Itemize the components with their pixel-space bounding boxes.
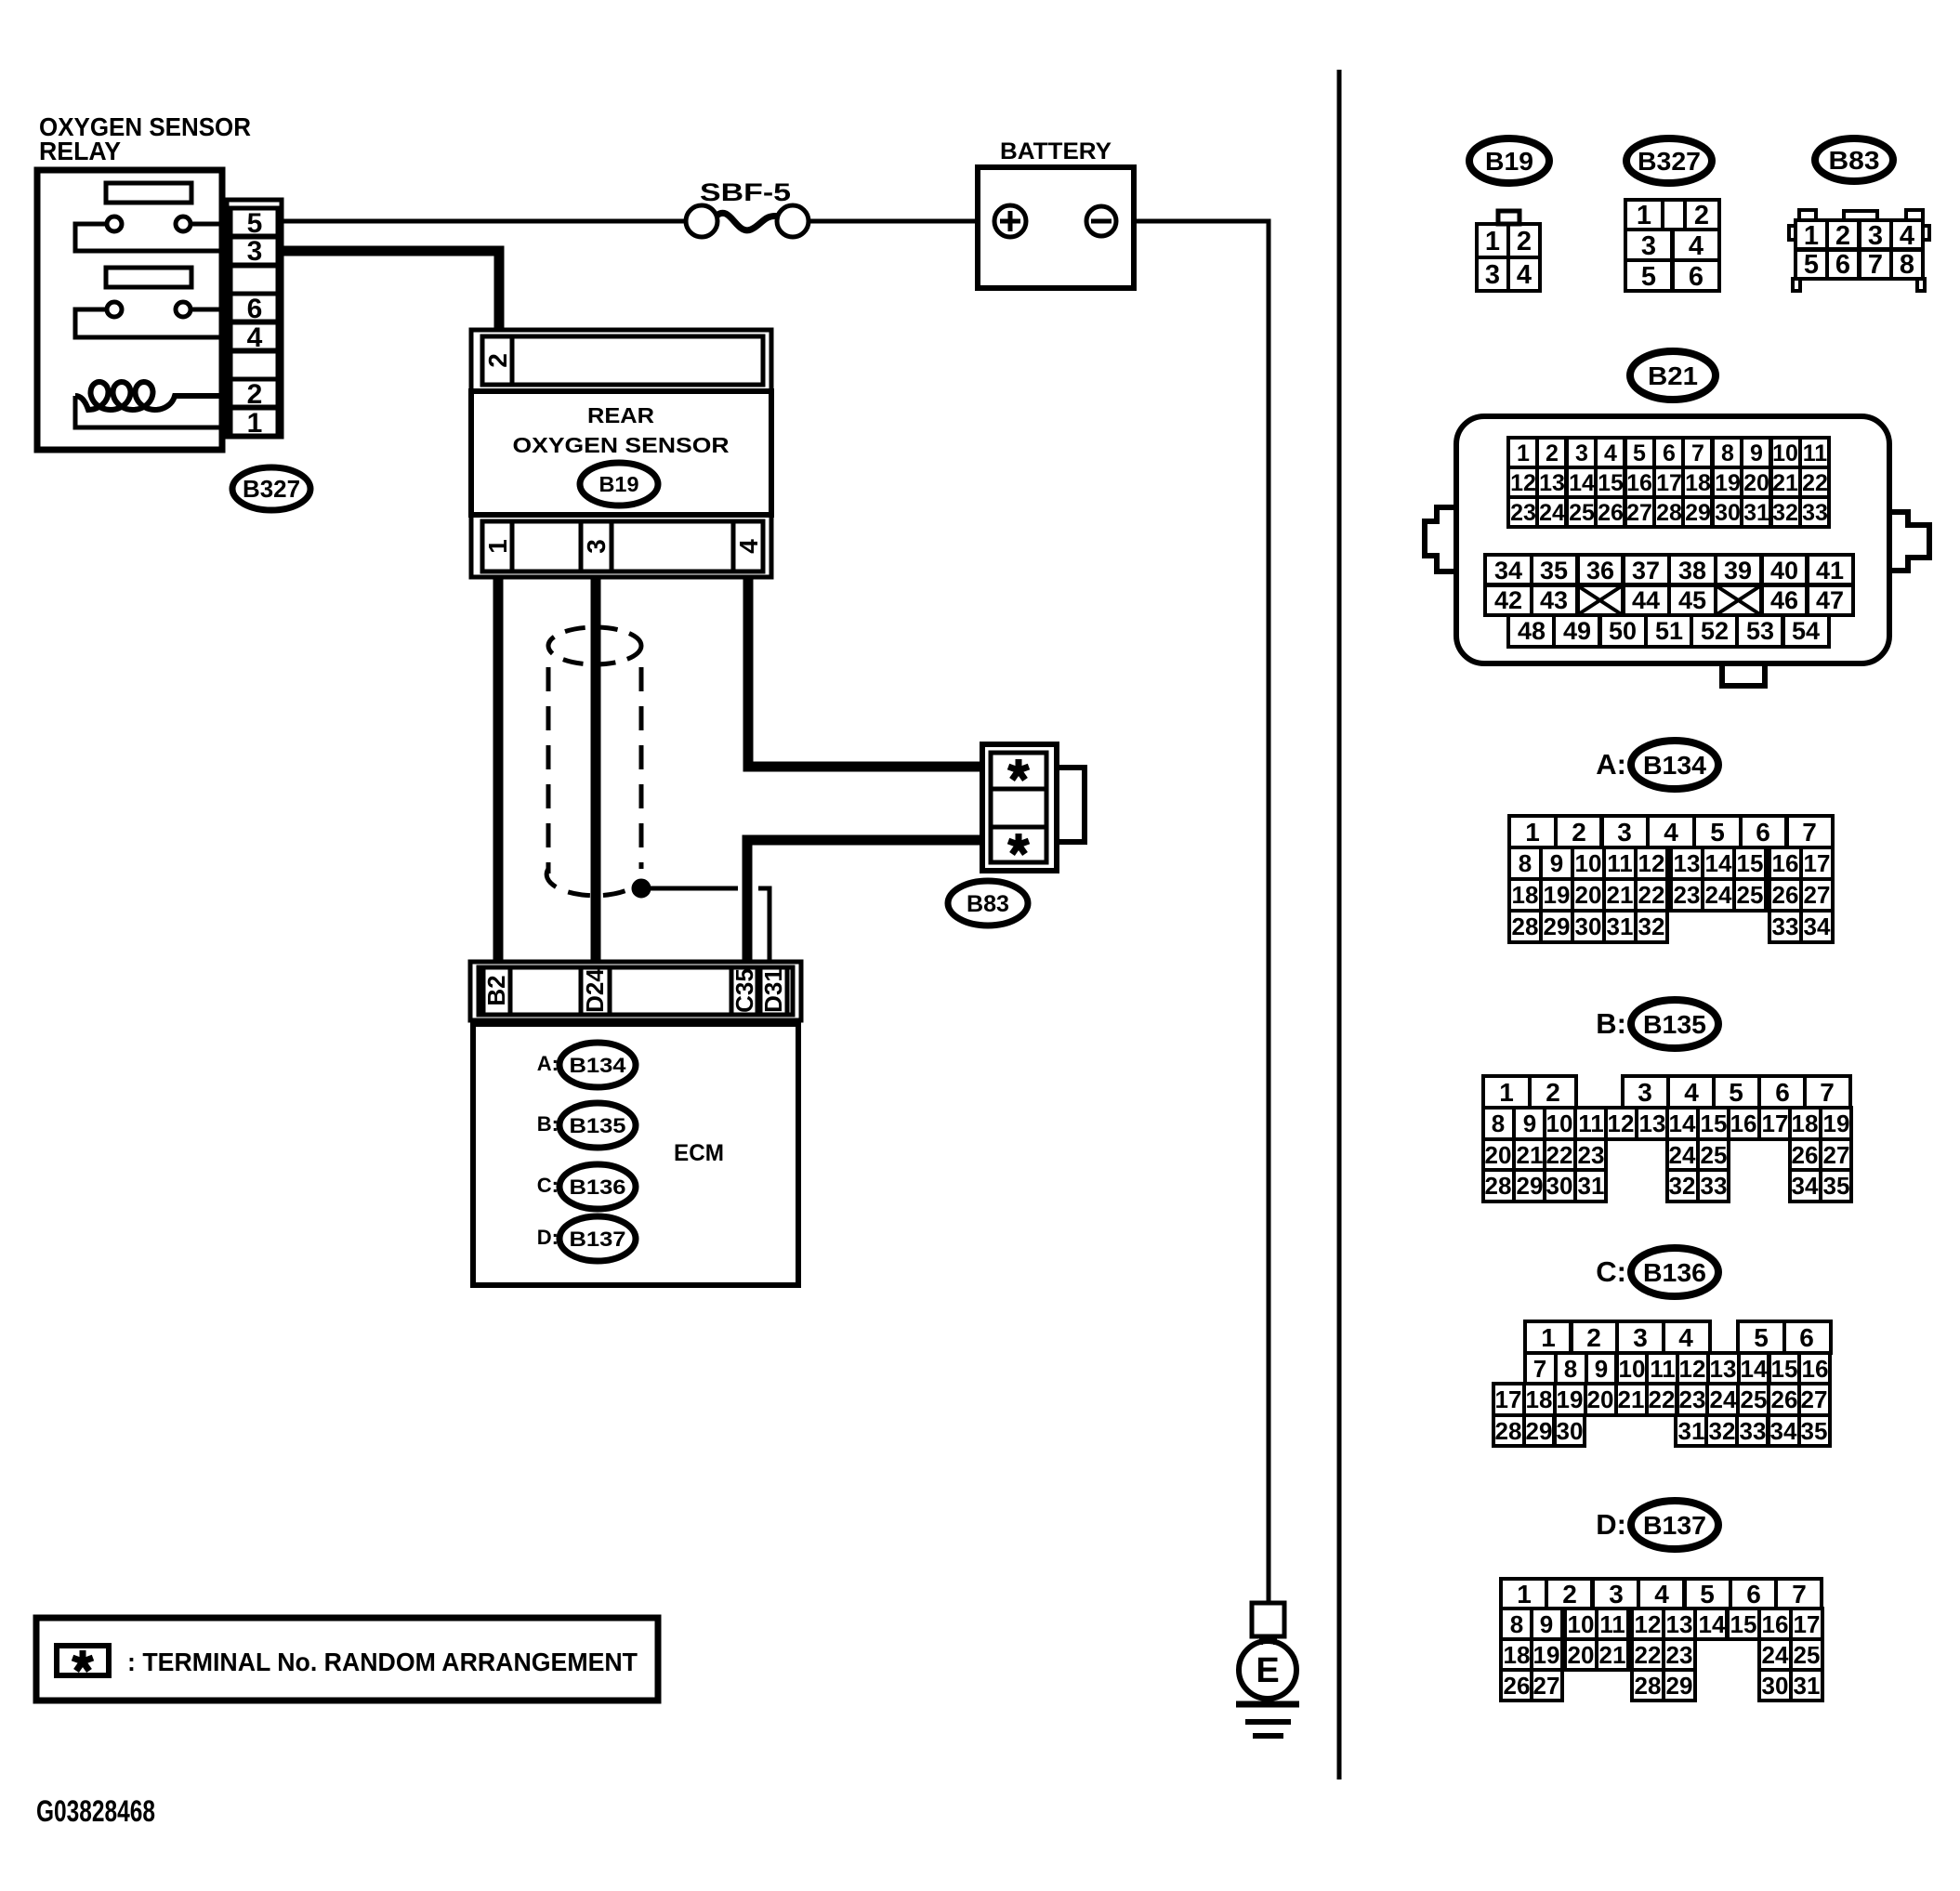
B137 view pin 6 — [1730, 1579, 1776, 1609]
svg-text:54: 54 — [1792, 617, 1820, 645]
B327 view blank key cell — [1663, 200, 1685, 230]
svg-text:36: 36 — [1586, 557, 1614, 584]
relay contact 2 right terminal — [176, 302, 191, 317]
svg-text:47: 47 — [1816, 586, 1844, 614]
B137 view pin 3 — [1593, 1579, 1638, 1609]
B135 view pin 29 — [1514, 1170, 1545, 1202]
B137 view pin 5 — [1685, 1579, 1730, 1609]
svg-text:32: 32 — [1669, 1172, 1696, 1200]
B21 view pin 11 — [1800, 438, 1829, 467]
B137 view pin 11 — [1597, 1609, 1628, 1639]
svg-text:13: 13 — [1539, 470, 1565, 496]
svg-text:16: 16 — [1730, 1110, 1757, 1137]
B135 view pin 33 — [1698, 1170, 1729, 1202]
relay contact 1 right terminal — [176, 217, 191, 231]
B21 view pin 47 — [1807, 585, 1853, 615]
connector view B19 grid — [1477, 224, 1540, 291]
svg-text:28: 28 — [1512, 913, 1539, 940]
B137 view pin 18 — [1501, 1639, 1532, 1670]
svg-text:7: 7 — [1792, 1580, 1807, 1609]
svg-text:B83: B83 — [967, 891, 1009, 917]
B21 view pin 30 — [1713, 497, 1742, 527]
svg-text:9: 9 — [1523, 1110, 1536, 1137]
B135 view pin 32 — [1667, 1170, 1698, 1202]
B21 view pin 36 — [1577, 555, 1624, 584]
B136 view pin 32 — [1706, 1415, 1737, 1446]
B136 view pin 14 — [1739, 1353, 1769, 1384]
svg-text:21: 21 — [1607, 881, 1634, 909]
B134 view pin 32 — [1636, 911, 1667, 942]
B134 view pin 13 — [1671, 847, 1703, 879]
wire sensor pin4 to connector B83 — [748, 577, 985, 767]
B21 view pin 14 — [1567, 467, 1596, 497]
svg-text:19: 19 — [1533, 1641, 1560, 1669]
svg-text:4: 4 — [1684, 1078, 1699, 1107]
B134 view pin 31 — [1604, 911, 1636, 942]
B134 view pin 14 — [1703, 847, 1734, 879]
B135 view pin 1 — [1483, 1076, 1530, 1108]
svg-text:15: 15 — [1737, 849, 1764, 877]
B135 view pin 24 — [1667, 1139, 1698, 1170]
B137 view pin 13 — [1664, 1609, 1695, 1639]
B137 view pin 1 — [1501, 1579, 1546, 1609]
connector B327 pin 3 cell — [230, 237, 278, 265]
B134 view pin 16 — [1769, 847, 1801, 879]
B137 view pin 25 — [1791, 1639, 1822, 1670]
svg-text:52: 52 — [1701, 617, 1729, 645]
svg-text:8: 8 — [1900, 250, 1914, 280]
B135 view pin 30 — [1545, 1170, 1575, 1202]
connector B327 blank cell — [230, 266, 278, 294]
B137 view pin 2 — [1546, 1579, 1592, 1609]
svg-text:39: 39 — [1724, 557, 1752, 584]
wire fuse to battery positive — [809, 219, 978, 224]
rear oxygen sensor pin 3 cell — [581, 521, 612, 571]
svg-text:B137: B137 — [1643, 1511, 1706, 1540]
svg-text:SBF-5: SBF-5 — [700, 178, 791, 206]
svg-text:4: 4 — [247, 322, 263, 353]
svg-text:38: 38 — [1678, 557, 1706, 584]
B327 view pin 2 — [1685, 200, 1719, 230]
svg-text:14: 14 — [1669, 1110, 1696, 1137]
svg-text:2: 2 — [247, 379, 263, 410]
B136 view pin 25 — [1738, 1384, 1769, 1415]
B135 view pin 19 — [1821, 1108, 1851, 1139]
svg-text:11: 11 — [1607, 849, 1633, 877]
svg-text:22: 22 — [1802, 470, 1828, 496]
B134 view pin 18 — [1509, 879, 1541, 911]
B83 view top-right tab — [1906, 210, 1923, 220]
B136 view pin 31 — [1676, 1415, 1706, 1446]
svg-text:24: 24 — [1762, 1641, 1789, 1669]
B136 view pin 27 — [1799, 1384, 1830, 1415]
svg-text:34: 34 — [1494, 557, 1522, 584]
B137 view pin 9 — [1532, 1609, 1562, 1639]
svg-text:B134: B134 — [570, 1054, 627, 1077]
svg-text:B2: B2 — [482, 975, 510, 1005]
svg-text:26: 26 — [1792, 1141, 1819, 1169]
B136 view pin 16 — [1799, 1353, 1830, 1384]
svg-text:1: 1 — [1525, 818, 1540, 847]
B134 view pin 5 — [1694, 816, 1741, 847]
B21 view pin 53 — [1737, 615, 1782, 647]
svg-text:16: 16 — [1762, 1610, 1789, 1638]
svg-text:9: 9 — [1550, 849, 1563, 877]
B21 view pin 37 — [1623, 555, 1669, 584]
B21 view pin 33 — [1800, 497, 1829, 527]
B136 view pin 5 — [1738, 1321, 1784, 1353]
B21 view pin 9 — [1742, 438, 1770, 467]
svg-text:53: 53 — [1746, 617, 1774, 645]
svg-text:1: 1 — [1517, 1580, 1532, 1609]
B137 view pin 26 — [1501, 1670, 1532, 1701]
svg-text:15: 15 — [1771, 1355, 1798, 1383]
svg-text:18: 18 — [1792, 1110, 1819, 1137]
connector view B21 oval — [1630, 351, 1716, 400]
svg-text:3: 3 — [247, 236, 263, 267]
svg-text:10: 10 — [1619, 1355, 1646, 1383]
svg-text:29: 29 — [1517, 1172, 1544, 1200]
B21 view pin 28 — [1654, 497, 1683, 527]
svg-text:32: 32 — [1709, 1417, 1736, 1445]
B136 view pin 3 — [1617, 1321, 1664, 1353]
connector B327 pin 4 cell — [230, 322, 278, 350]
svg-text:26: 26 — [1771, 1385, 1798, 1413]
svg-text:20: 20 — [1587, 1385, 1614, 1413]
svg-text:3: 3 — [1575, 440, 1588, 466]
svg-text:28: 28 — [1495, 1417, 1522, 1445]
B21 view pin 32 — [1771, 497, 1800, 527]
svg-text:B19: B19 — [1485, 147, 1533, 176]
svg-text:5: 5 — [1754, 1323, 1769, 1352]
svg-text:25: 25 — [1794, 1641, 1821, 1669]
svg-text:28: 28 — [1656, 500, 1682, 526]
B137 view pin 23 — [1664, 1639, 1695, 1670]
svg-text:20: 20 — [1568, 1641, 1595, 1669]
B83 view bottom-left tab — [1793, 279, 1800, 291]
svg-text:30: 30 — [1575, 913, 1602, 940]
svg-text:30: 30 — [1546, 1172, 1573, 1200]
ECM body — [473, 1024, 798, 1285]
B135 view pin 23 — [1575, 1139, 1606, 1170]
B134 view pin 19 — [1541, 879, 1572, 911]
svg-text:14: 14 — [1699, 1610, 1726, 1638]
connector B83 terminal * upper — [991, 753, 1046, 789]
svg-text:11: 11 — [1650, 1355, 1676, 1383]
ECM pin D24 cell — [581, 967, 610, 1015]
B135 view pin 15 — [1698, 1108, 1729, 1139]
connector B327 pin 5 cell — [230, 208, 278, 236]
B136 view pin 20 — [1585, 1384, 1616, 1415]
B136 view pin 35 — [1799, 1415, 1830, 1446]
B134 view pin 15 — [1734, 847, 1766, 879]
B134 view pin 8 — [1509, 847, 1541, 879]
connector view B136 grid — [1493, 1321, 1831, 1446]
svg-text:8: 8 — [1510, 1610, 1523, 1638]
svg-text:19: 19 — [1823, 1110, 1850, 1137]
svg-text:16: 16 — [1626, 470, 1652, 496]
svg-text:30: 30 — [1715, 500, 1741, 526]
connector B327 oval label — [232, 467, 310, 510]
B135 view pin 2 — [1530, 1076, 1576, 1108]
B137 view pin 14 — [1695, 1609, 1727, 1639]
B83 view bottom-right tab — [1917, 279, 1925, 291]
svg-text:18: 18 — [1504, 1641, 1531, 1669]
B136 view pin 13 — [1708, 1353, 1739, 1384]
B136 view pin 11 — [1647, 1353, 1677, 1384]
svg-text:B:: B: — [1596, 1007, 1626, 1040]
svg-text:4: 4 — [734, 539, 763, 554]
svg-text:34: 34 — [1770, 1417, 1797, 1445]
B21 view pin 15 — [1596, 467, 1625, 497]
B21 view pin 4 — [1596, 438, 1625, 467]
ECM pin D31 cell — [760, 967, 787, 1015]
svg-text:2: 2 — [1586, 1323, 1601, 1352]
B83 view pin 7 — [1860, 249, 1891, 279]
svg-text:7: 7 — [1533, 1355, 1546, 1383]
battery negative terminal — [1086, 206, 1116, 236]
svg-text:8: 8 — [1564, 1355, 1577, 1383]
svg-text:22: 22 — [1638, 881, 1665, 909]
B135 view pin 11 — [1575, 1108, 1606, 1139]
B21 view pin 40 — [1761, 555, 1808, 584]
svg-text:8: 8 — [1519, 849, 1532, 877]
svg-text:1: 1 — [1517, 440, 1530, 466]
svg-text:30: 30 — [1762, 1672, 1789, 1700]
svg-text:31: 31 — [1578, 1172, 1605, 1200]
wire sensor pin3 to ECM D24 shielded — [591, 577, 601, 963]
B135 view pin 4 — [1668, 1076, 1714, 1108]
svg-text:3: 3 — [1641, 231, 1656, 261]
wire relay pin5 to fuse SBF-5 — [282, 219, 686, 224]
B137 view pin 10 — [1565, 1609, 1597, 1639]
svg-text:28: 28 — [1635, 1672, 1662, 1700]
svg-text:G03828468: G03828468 — [36, 1794, 155, 1828]
svg-text:4: 4 — [1604, 440, 1617, 466]
B135 view pin 12 — [1606, 1108, 1637, 1139]
B21 view pin 49 — [1554, 615, 1599, 647]
connector view B135 grid — [1483, 1076, 1851, 1202]
svg-text:3: 3 — [1485, 260, 1500, 290]
svg-text:OXYGEN SENSOR: OXYGEN SENSOR — [513, 433, 730, 457]
B21 view pin 45 — [1669, 585, 1716, 615]
svg-text:22: 22 — [1649, 1385, 1676, 1413]
B136 view pin 10 — [1616, 1353, 1647, 1384]
B21 view pin 10 — [1771, 438, 1800, 467]
B134 view pin 22 — [1636, 879, 1667, 911]
svg-text:12: 12 — [1608, 1110, 1635, 1137]
B21 view pin 13 — [1537, 467, 1566, 497]
svg-text:B134: B134 — [1643, 751, 1706, 780]
svg-text:16: 16 — [1802, 1355, 1829, 1383]
B83 view top-left tab — [1799, 210, 1816, 220]
B135 view pin 7 — [1805, 1076, 1850, 1108]
svg-text:23: 23 — [1666, 1641, 1693, 1669]
svg-text:25: 25 — [1701, 1141, 1728, 1169]
connector B83 terminal * lower — [991, 827, 1046, 862]
shield junction node — [632, 879, 651, 898]
B21 view pin 54 — [1783, 615, 1829, 647]
svg-text:26: 26 — [1772, 881, 1799, 909]
battery positive terminal — [994, 205, 1026, 237]
svg-text:B83: B83 — [1829, 146, 1880, 175]
svg-text:13: 13 — [1666, 1610, 1693, 1638]
B21 view pin 6 — [1654, 438, 1683, 467]
B135 view pin 17 — [1759, 1108, 1790, 1139]
wire relay pin3 to rear oxygen sensor pin 2 — [282, 251, 499, 331]
svg-text:RELAY: RELAY — [39, 137, 121, 165]
B19 view pin 3 — [1477, 257, 1508, 291]
svg-text:6: 6 — [1746, 1580, 1761, 1609]
B21 view pin 35 — [1532, 555, 1578, 584]
B136 view pin 19 — [1555, 1384, 1585, 1415]
rear oxygen sensor oval label B19 — [580, 463, 658, 506]
svg-text:29: 29 — [1666, 1672, 1693, 1700]
svg-text:31: 31 — [1743, 500, 1769, 526]
B21 view pin 51 — [1646, 615, 1691, 647]
svg-text:34: 34 — [1804, 913, 1831, 940]
B135 view pin 14 — [1667, 1108, 1698, 1139]
svg-text:40: 40 — [1770, 557, 1798, 584]
svg-text:6: 6 — [1689, 262, 1703, 292]
svg-text:33: 33 — [1802, 500, 1828, 526]
B21 view pin 48 — [1508, 615, 1554, 647]
connector B327 pin 1 cell — [230, 408, 278, 436]
B21 view pin 18 — [1683, 467, 1712, 497]
svg-text:26: 26 — [1598, 500, 1624, 526]
fuse SBF-5 right terminal — [777, 205, 809, 237]
B19 view pin 4 — [1508, 257, 1540, 291]
B134 view pin 25 — [1734, 879, 1766, 911]
svg-text:B137: B137 — [570, 1228, 626, 1251]
svg-text:23: 23 — [1679, 1385, 1706, 1413]
svg-text:21: 21 — [1517, 1141, 1544, 1169]
svg-text:17: 17 — [1495, 1385, 1522, 1413]
relay contact 1 fixed bar — [106, 183, 191, 203]
shield around D24 wire — [548, 627, 641, 664]
relay contact 2 fixed bar — [106, 268, 191, 287]
B137 view pin 31 — [1791, 1670, 1822, 1701]
svg-text:18: 18 — [1512, 881, 1539, 909]
B134 view pin 30 — [1572, 911, 1604, 942]
B21 view pin 50 — [1600, 615, 1646, 647]
B134 view pin 10 — [1572, 847, 1604, 879]
svg-text:10: 10 — [1575, 849, 1602, 877]
svg-text:3: 3 — [1609, 1580, 1624, 1609]
svg-text:13: 13 — [1639, 1110, 1666, 1137]
B135 view pin 3 — [1623, 1076, 1668, 1108]
B136 view pin 4 — [1664, 1321, 1710, 1353]
B134 view pin 28 — [1509, 911, 1541, 942]
svg-text:17: 17 — [1762, 1110, 1789, 1137]
B136 view pin 12 — [1677, 1353, 1708, 1384]
relay coil L1 — [75, 382, 219, 410]
svg-text:2: 2 — [1562, 1580, 1577, 1609]
svg-text:4: 4 — [1517, 260, 1532, 290]
fuse SBF-5 element — [716, 213, 780, 230]
svg-text:41: 41 — [1816, 557, 1844, 584]
B21 view pin 2 — [1537, 438, 1566, 467]
svg-text:50: 50 — [1609, 617, 1637, 645]
rear oxygen sensor pin 4 cell — [733, 521, 763, 571]
B21 view pin 1 — [1508, 438, 1537, 467]
wire relay coil to pin 1 — [75, 396, 219, 427]
svg-text:5: 5 — [1710, 818, 1725, 847]
svg-text:B19: B19 — [599, 472, 639, 496]
fuse SBF-5 left terminal — [686, 205, 717, 237]
svg-text:33: 33 — [1740, 1417, 1767, 1445]
wire relay contact2 to pin 4 — [75, 309, 219, 337]
B327 view pin 1 — [1625, 200, 1663, 230]
svg-text:19: 19 — [1715, 470, 1741, 496]
B135 view pin 9 — [1514, 1108, 1545, 1139]
battery G1 — [978, 167, 1134, 288]
connector view B83 oval — [1815, 138, 1893, 181]
rear oxygen sensor top connector strip — [471, 330, 771, 391]
svg-text:4: 4 — [1654, 1580, 1669, 1609]
svg-text:6: 6 — [1756, 818, 1770, 847]
svg-text:1: 1 — [247, 408, 263, 439]
svg-text:1: 1 — [1804, 221, 1819, 251]
svg-text:27: 27 — [1626, 500, 1652, 526]
B134 view pin 24 — [1703, 879, 1734, 911]
svg-text:B136: B136 — [1643, 1258, 1706, 1287]
B134 view pin 3 — [1601, 816, 1648, 847]
B136 view pin 15 — [1769, 1353, 1799, 1384]
connector B327 pin 6 cell — [230, 294, 278, 322]
svg-text:4: 4 — [1678, 1323, 1693, 1352]
ground E body circle — [1239, 1641, 1296, 1699]
svg-text:46: 46 — [1770, 586, 1798, 614]
B21 view pin 27 — [1625, 497, 1654, 527]
ground symbol bars — [1236, 1701, 1299, 1708]
B134 view pin 26 — [1769, 879, 1801, 911]
svg-text:B136: B136 — [570, 1175, 626, 1199]
B135 view pin 31 — [1575, 1170, 1606, 1202]
svg-text:9: 9 — [1540, 1610, 1553, 1638]
svg-text:49: 49 — [1563, 617, 1591, 645]
B134 view pin 1 — [1509, 816, 1556, 847]
svg-text:B21: B21 — [1648, 361, 1698, 390]
connector view B19 oval — [1469, 138, 1549, 183]
svg-text:19: 19 — [1557, 1385, 1584, 1413]
B135 view pin 6 — [1759, 1076, 1805, 1108]
connector view B21 bottom tab — [1722, 663, 1765, 686]
B83 view pin 3 — [1860, 220, 1891, 250]
svg-text:21: 21 — [1599, 1641, 1626, 1669]
connector view B21 outline — [1456, 416, 1889, 663]
svg-text:28: 28 — [1485, 1172, 1512, 1200]
svg-text:32: 32 — [1638, 913, 1665, 940]
B21 view pin 16 — [1625, 467, 1654, 497]
svg-text:D:: D: — [1596, 1508, 1626, 1541]
svg-text:25: 25 — [1737, 881, 1764, 909]
svg-text:4: 4 — [1664, 818, 1678, 847]
B21 view pin 41 — [1807, 555, 1853, 584]
svg-text:22: 22 — [1546, 1141, 1573, 1169]
svg-text:4: 4 — [1900, 221, 1914, 251]
connector view B21 left tab — [1425, 507, 1456, 571]
connector B83 oval label — [948, 881, 1028, 926]
connector view B134 grid — [1509, 816, 1833, 942]
svg-text:D31: D31 — [759, 968, 787, 1013]
svg-text:35: 35 — [1540, 557, 1568, 584]
svg-text:29: 29 — [1544, 913, 1571, 940]
B137 view pin 8 — [1501, 1609, 1532, 1639]
B134 view pin 17 — [1801, 847, 1833, 879]
connector view B327 grid — [1625, 200, 1719, 292]
svg-text:A:: A: — [537, 1052, 559, 1075]
